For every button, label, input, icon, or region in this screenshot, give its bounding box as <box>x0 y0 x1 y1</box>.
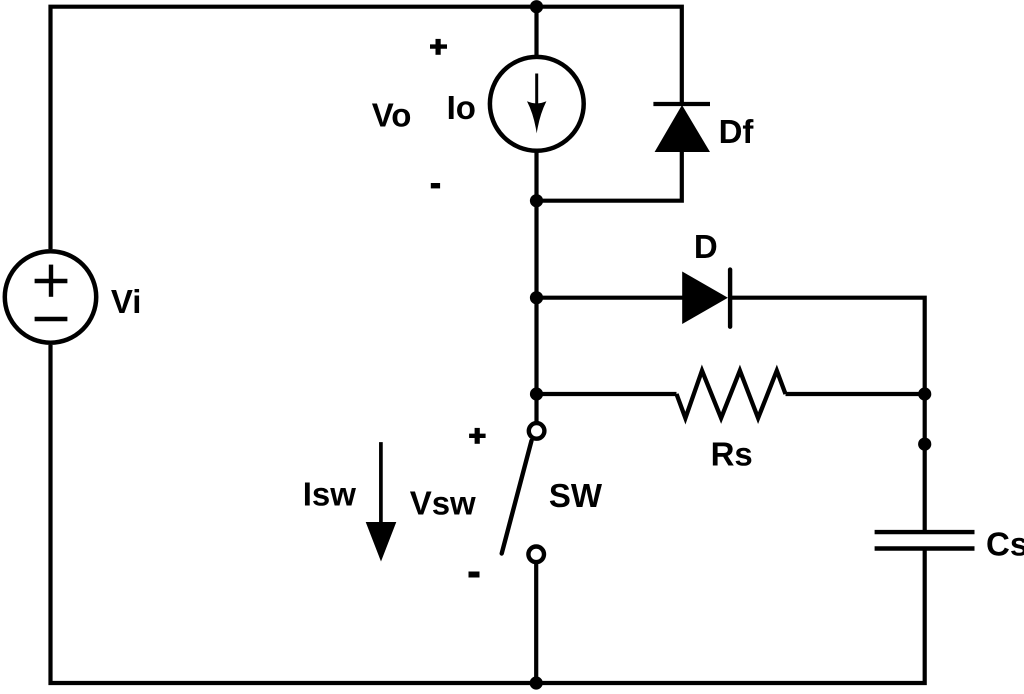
wire Rs left lead <box>537 392 677 396</box>
svg-text:D: D <box>694 228 718 265</box>
resistor Rs <box>677 371 786 419</box>
switch SW terminal top <box>529 423 545 439</box>
node dot Rs branch left <box>530 387 543 400</box>
node dot Cs top <box>918 438 931 451</box>
Vi minus sign <box>35 317 68 321</box>
wire bottom-left loop: left rail down, bottom rail, right rail up to Cs bottom plate <box>51 345 925 683</box>
svg-text:Vi: Vi <box>111 283 142 320</box>
svg-text:SW: SW <box>549 477 603 514</box>
svg-text:Df: Df <box>719 113 755 150</box>
wire D cathode lead and right rail down to Cs top plate <box>730 298 925 531</box>
svg-text:Cs: Cs <box>986 525 1024 562</box>
wire Io bottom lead down to switch top <box>534 152 538 422</box>
svg-text:Vsw: Vsw <box>410 484 476 521</box>
node dot Rs branch right <box>918 387 931 400</box>
wire top-left loop: left rail up, top rail, down to Df <box>51 7 682 249</box>
switch SW terminal bottom <box>528 547 544 563</box>
switch SW blade <box>502 441 532 554</box>
svg-text:Rs: Rs <box>711 435 753 472</box>
Vo minus sign <box>431 183 440 188</box>
Io arrow <box>535 74 538 107</box>
wire D anode lead <box>537 296 684 300</box>
node dot Io bottom <box>530 194 543 207</box>
Vo plus sign <box>430 39 447 55</box>
switch minus sign <box>469 572 480 578</box>
node dot bottom <box>530 676 543 689</box>
diode Df <box>653 102 710 106</box>
node dot top <box>530 0 543 13</box>
wire Io top lead <box>534 7 538 56</box>
current source Io <box>490 57 584 151</box>
svg-text:Io: Io <box>447 89 476 126</box>
svg-text:Vo: Vo <box>372 96 412 133</box>
wire Df bottom lead and return to node <box>537 150 682 201</box>
switch plus sign <box>469 428 486 444</box>
voltage source Vi <box>5 251 96 342</box>
wire Rs right lead <box>786 392 925 396</box>
Isw current arrow <box>379 442 383 524</box>
diode D <box>682 272 728 325</box>
capacitor Cs <box>875 532 975 548</box>
Vi plus sign <box>35 265 68 297</box>
wire switch bottom lead <box>534 562 538 683</box>
svg-text:Isw: Isw <box>303 476 357 513</box>
node dot D branch <box>530 291 543 304</box>
